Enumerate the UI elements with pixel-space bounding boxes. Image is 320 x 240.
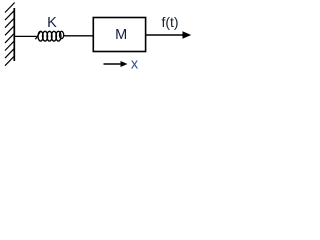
wall vertical line (13, 8, 15, 61)
displacement arrow x head (121, 61, 128, 67)
svg-text:M: M (115, 27, 127, 43)
wall hatch 3 (5, 18, 15, 28)
background (0, 0, 194, 83)
svg-text:f(t): f(t) (161, 14, 178, 30)
spring K : coil loop 5 (56, 31, 61, 41)
mass box M (93, 18, 145, 52)
wire from spring to mass (63, 35, 93, 37)
wall hatch 6 (5, 41, 15, 51)
spring K : coil loop 3 (47, 31, 52, 41)
wall hatch 8 (5, 56, 15, 66)
force arrow f(t) shaft (146, 34, 184, 36)
wall hatch 5 (5, 33, 15, 43)
displacement arrow x shaft (104, 63, 122, 65)
spring K : entry diagonal (35, 32, 40, 40)
spring K : coil loop 2 (43, 31, 48, 41)
wall hatch 2 (5, 10, 15, 20)
wall hatch 1 (5, 3, 15, 13)
spring K : coil loop 1 (38, 31, 43, 41)
wall hatch 4 (5, 25, 15, 35)
spring K : coil loop 4 (51, 31, 56, 41)
wall hatch 7 (5, 48, 15, 58)
force arrow f(t) head (183, 31, 192, 39)
svg-text:x: x (131, 56, 139, 72)
spring K : coil loop 6 (60, 31, 64, 38)
wire from wall to spring (14, 35, 36, 37)
svg-text:K: K (47, 15, 57, 31)
